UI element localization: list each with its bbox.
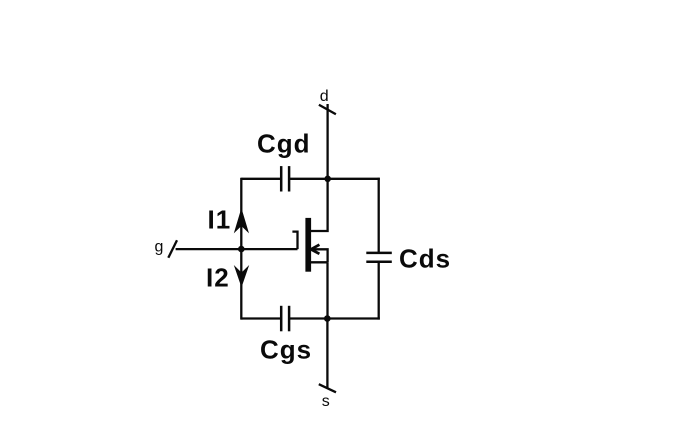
terminal tick d	[319, 105, 336, 114]
wire transistor source to bottom node	[326, 262, 328, 318]
svg-text:g: g	[155, 239, 164, 256]
transistor M1	[292, 218, 327, 272]
svg-text:I2: I2	[206, 263, 230, 293]
junction dot gate node	[238, 246, 245, 253]
source lead stub	[311, 261, 328, 263]
arrow I2	[234, 265, 249, 287]
svg-text:s: s	[322, 393, 330, 410]
terminal tick g	[168, 240, 177, 258]
channel bar	[305, 218, 311, 272]
wire left branch upper	[240, 178, 242, 249]
arrow I1	[234, 208, 249, 233]
gate electrode	[292, 232, 297, 250]
svg-text:I1: I1	[208, 205, 232, 235]
svg-text:Cds: Cds	[399, 244, 451, 274]
junction dot top node	[324, 176, 331, 183]
wire left branch lower	[240, 249, 242, 320]
terminal tick s	[319, 384, 336, 392]
wire bottom rail right segment	[289, 317, 380, 319]
wire top node to transistor drain	[311, 179, 328, 231]
wire right branch upper	[378, 178, 380, 253]
wire gate lead g	[176, 248, 298, 250]
wire bottom node to source terminal	[326, 319, 328, 389]
capacitor Cds	[366, 253, 392, 262]
wire top rail right segment	[289, 178, 380, 180]
capacitor Cgs	[281, 306, 289, 332]
junction dot bottom node	[324, 315, 331, 322]
wire bottom rail left segment	[241, 317, 281, 319]
capacitor Cgd	[281, 166, 289, 191]
body arrow	[311, 245, 319, 254]
wire right branch lower	[378, 262, 380, 320]
svg-text:Cgs: Cgs	[260, 335, 312, 365]
wire drain terminal to top node	[326, 104, 328, 179]
svg-text:d: d	[320, 88, 329, 105]
svg-text:Cgd: Cgd	[257, 129, 311, 159]
wire top rail left segment	[241, 178, 281, 180]
body lead with corner	[311, 249, 328, 262]
